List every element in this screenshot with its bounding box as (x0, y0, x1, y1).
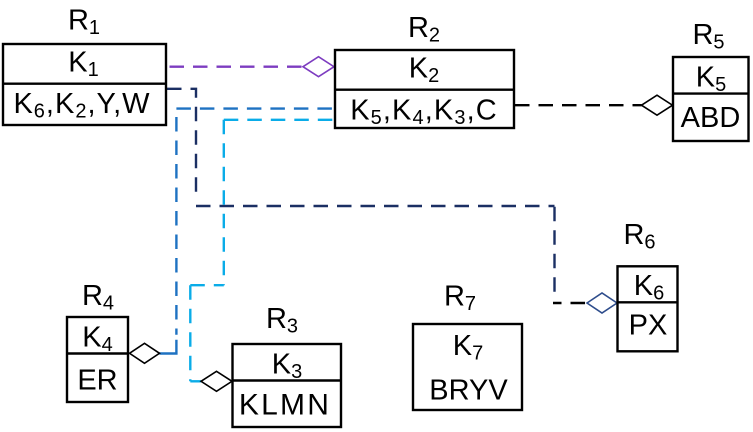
wire purple R1-R2 (167, 65, 303, 67)
svg-text:KLMN: KLMN (239, 388, 331, 421)
svg-text:PX: PX (629, 310, 668, 342)
relationship diamond black R5 (642, 95, 673, 115)
entity box R2 (335, 50, 514, 128)
svg-text:BRYV: BRYV (429, 375, 508, 407)
wire blue R2-R4 (176, 107, 334, 109)
wire cyan jog segment (190, 284, 224, 286)
relationship diamond black R4 (130, 343, 160, 363)
svg-text:R3: R3 (266, 303, 298, 338)
svg-text:R5: R5 (692, 19, 724, 54)
relationship diamond black R3 (201, 371, 232, 391)
entity box R5 (673, 57, 749, 141)
wire cyan solid stub at R3 diamond (190, 380, 201, 382)
entity box R4 (67, 317, 128, 402)
wire navy horizontal middle (196, 205, 555, 207)
wire cyan vertical upper (223, 120, 225, 285)
wire cyan vertical lower (189, 285, 191, 381)
wire navy vertical right (553, 206, 555, 294)
entity box R1 (3, 44, 166, 125)
wire navy R1-R6 (167, 89, 196, 200)
svg-text:ABD: ABD (681, 102, 741, 134)
svg-text:R4: R4 (82, 280, 114, 315)
svg-text:R1: R1 (68, 5, 100, 40)
wire cyan R2-R3 (224, 119, 334, 121)
relationship diamond purple (303, 57, 334, 77)
svg-text:R7: R7 (444, 280, 476, 315)
svg-text:ER: ER (77, 365, 117, 397)
wire black R2-R5 (515, 104, 642, 106)
wire blue solid elbow at R4 diamond (160, 340, 177, 354)
entity box R7 (413, 324, 522, 410)
entity box R6 (617, 266, 678, 351)
wire black stub R6 (553, 302, 587, 304)
svg-text:R2: R2 (408, 12, 440, 47)
entity box R3 (233, 344, 342, 427)
svg-text:R6: R6 (623, 219, 655, 254)
wire blue vertical upper (175, 109, 177, 335)
relationship diamond navy R6 (587, 293, 617, 313)
